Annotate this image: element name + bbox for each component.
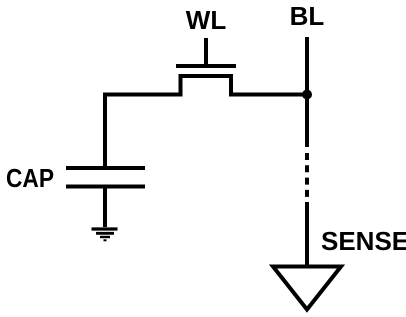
svg-text:WL: WL (186, 5, 227, 35)
svg-text:SENSE: SENSE (321, 226, 406, 256)
svg-text:CAP: CAP (6, 163, 54, 193)
svg-text:BL: BL (290, 1, 325, 31)
